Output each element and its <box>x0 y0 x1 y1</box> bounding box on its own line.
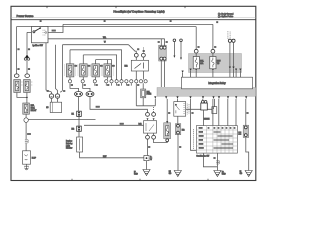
dashed above terminal2 <box>153 107 155 113</box>
combination switch table <box>196 126 237 154</box>
fuse M1 <box>66 64 74 77</box>
right connector block <box>243 125 248 137</box>
nested bus 2 <box>70 50 122 80</box>
chain wire b <box>78 116 80 126</box>
band bottom cones <box>154 96 247 99</box>
DRL resistor box <box>77 137 83 152</box>
zone tick bottom <box>72 179 208 181</box>
dashed link above coil 2 <box>142 48 144 54</box>
relay RL2 terminal 1 <box>146 113 150 117</box>
combination meter box <box>50 102 61 112</box>
wire bus P right drop <box>195 27 197 50</box>
wire table to ground G3 <box>216 153 218 170</box>
R2 internal switch <box>176 106 180 114</box>
headlight LH filament low <box>24 155 28 157</box>
integration relay bar <box>182 77 253 89</box>
wire left column B cont <box>26 60 28 74</box>
chain conn 1 <box>77 111 82 116</box>
bus full width y38.8 <box>48 38 165 40</box>
svg-text:R-W: R-W <box>103 156 107 158</box>
fuse DRL main <box>23 103 30 114</box>
bulb feed 2 <box>57 92 59 94</box>
resistor output long wire <box>80 152 144 158</box>
coil wires into box <box>136 57 143 60</box>
headlight relay coil circle 1 <box>134 53 138 57</box>
small comp above table <box>201 101 208 111</box>
zone tick top <box>47 6 185 8</box>
conn marks on ground wire <box>216 161 219 165</box>
RL1 internal switch <box>135 64 142 69</box>
svg-text:IH2: IH2 <box>182 130 185 132</box>
wires above 2pin <box>161 39 164 46</box>
right feed circle 2 <box>211 49 215 53</box>
nested bus 1 left stub <box>60 45 63 92</box>
diode dot <box>212 107 214 109</box>
RL1 internal coil mark <box>143 63 145 69</box>
bulb stems into box <box>52 98 58 102</box>
wire fuse outputs join <box>17 93 27 98</box>
svg-text:Combination SW: Combination SW <box>196 154 209 157</box>
wire W2 long run <box>28 120 143 126</box>
nested bus 4 drop <box>96 60 108 64</box>
connector oval B <box>25 74 30 78</box>
wire RL2 right to gray fuse <box>154 139 168 142</box>
svg-text:Ignition SW: Ignition SW <box>33 44 43 47</box>
wire bus Q right drop <box>212 24 214 49</box>
conn 1pin block <box>175 124 180 135</box>
svg-text:7.5: 7.5 <box>217 63 219 65</box>
upper gray junction block <box>189 54 242 73</box>
wire bulb column <box>25 122 27 139</box>
optional pair circles <box>228 39 231 42</box>
wire small comp to table <box>202 110 204 126</box>
table contact bars <box>214 132 234 148</box>
wire right conn to ground <box>246 138 249 171</box>
chain wire c <box>78 131 80 137</box>
page frame <box>11 6 256 180</box>
nested bus 2 drop <box>69 50 71 64</box>
table right note <box>239 132 241 133</box>
headlight relay box RL1 <box>131 60 148 71</box>
resistor inner <box>79 139 81 151</box>
optional wires w cones <box>174 42 181 58</box>
fuse M2 <box>80 64 88 77</box>
connector oval A <box>14 74 19 78</box>
svg-text:( ) : Splice Points: ( ) : Splice Points <box>218 15 233 18</box>
meter inner line <box>51 102 53 112</box>
svg-text:Headlight (w/ Daytime Running: Headlight (w/ Daytime Running Light) <box>113 9 164 13</box>
R2 label <box>187 104 189 115</box>
wire table join to ground <box>203 153 217 167</box>
wire band to right conn <box>245 99 247 125</box>
bus P y26.9 <box>17 26 197 28</box>
fuse HEAD RH <box>24 80 31 93</box>
nested bus 1 tap <box>56 45 58 92</box>
ignition switch pin marks <box>43 30 46 35</box>
cone ends <box>173 56 182 60</box>
diode box <box>212 107 217 114</box>
wire small fuse top <box>142 83 144 89</box>
wire cone155 down to lineA <box>154 99 156 106</box>
fuse side marks <box>21 82 32 85</box>
cone stub wires <box>183 69 241 77</box>
svg-text:RELAY: RELAY <box>31 109 38 112</box>
svg-text:IK2: IK2 <box>72 128 75 130</box>
connector diamond pair <box>24 118 28 123</box>
lower gray band <box>157 88 256 97</box>
fuse HEAD LH <box>14 80 21 93</box>
wire left column B <box>26 32 28 54</box>
RL2 cone pins <box>147 118 155 120</box>
wire circle2 to oval2 <box>83 83 90 91</box>
svg-text:Power Source: Power Source <box>17 14 34 18</box>
RL2 internal <box>146 123 154 131</box>
indicator bulb 1 <box>49 94 53 98</box>
bus Q y24.3 <box>63 23 213 25</box>
relay RL2 terminal 2 <box>152 113 156 117</box>
RL2 bottom pin wires <box>148 133 154 135</box>
chain conn 2 <box>77 126 82 131</box>
line A horizontal <box>136 105 155 107</box>
optional wire top circles <box>173 39 176 42</box>
fuse M4 <box>104 64 112 77</box>
optional pair wires <box>230 42 234 66</box>
junction box JB <box>144 156 149 161</box>
wire band to small comp <box>202 99 204 101</box>
R2 dot terminal <box>175 104 177 106</box>
svg-text:( ) : Body Ground: ( ) : Body Ground <box>218 13 233 15</box>
wire conn to ground <box>177 135 179 171</box>
J/B fuse row dashes <box>65 65 114 77</box>
right feed circle 1 <box>194 49 198 53</box>
connector circle row <box>68 80 147 83</box>
wire R2 down <box>177 116 179 123</box>
wire to headlight LH <box>25 143 27 150</box>
JB fuse 1 <box>193 57 199 69</box>
ground triangle G3 <box>214 171 221 177</box>
headlight relay coil circle 2 <box>142 53 146 57</box>
chain wire a <box>78 97 80 112</box>
bus diagonal to relay coil <box>129 45 137 54</box>
bulb feed 1 <box>51 92 53 94</box>
wire junction to ground <box>146 161 148 170</box>
R2 pin hatch <box>183 104 185 114</box>
connector oval 2pin 1 <box>75 92 83 97</box>
gray fuse top cone <box>166 121 168 123</box>
svg-text:IJ1: IJ1 <box>72 114 74 116</box>
wire circle1 to oval1 <box>70 83 79 91</box>
table rotated label <box>193 129 195 149</box>
RL1 pin wires down <box>136 71 143 79</box>
svg-text:Resistor: Resistor <box>66 147 73 150</box>
wire 190.5 to table row <box>191 99 197 150</box>
wire switch input <box>27 31 32 33</box>
gray fuse tall <box>164 123 171 139</box>
svg-text:W-L: W-L <box>103 37 106 39</box>
wire band to relay R2 <box>177 99 179 102</box>
wire switch output step <box>48 24 63 32</box>
ground triangle G4 <box>245 171 252 177</box>
relay R2 box <box>174 102 186 117</box>
fuse M3 <box>92 64 100 77</box>
relay RL2 box <box>144 121 157 133</box>
svg-text:Integration Relay: Integration Relay <box>208 82 226 85</box>
wire circles into block <box>196 53 213 56</box>
ignition switch lever <box>35 28 41 32</box>
wire W1 oval2 to relay RL2 <box>90 97 147 113</box>
connector oval 2pin 2 <box>86 92 94 97</box>
gray fuse bottom circle <box>166 139 169 142</box>
JB fuse 2 <box>210 57 216 69</box>
headlight LH filament high <box>24 159 28 162</box>
body ground cross LH <box>24 164 29 170</box>
wire R2 to diode <box>186 108 212 110</box>
wire small fuse bottom <box>142 98 144 106</box>
diode wire up <box>213 99 215 107</box>
nested bus 3 <box>83 55 116 80</box>
svg-text:DIODE: DIODE <box>204 119 210 121</box>
ignition switch box SW1 <box>32 27 49 43</box>
nested bus 3 drops <box>82 55 84 64</box>
junction box dot <box>146 157 148 159</box>
table row labels <box>199 127 235 148</box>
ignition switch inner pin <box>45 32 47 34</box>
nested bus 4 <box>96 60 112 80</box>
RL2 bottom terminals <box>146 135 150 139</box>
optional pair vertical text <box>228 31 230 39</box>
block bottom cones <box>190 67 242 72</box>
wires fuse bottoms to circle row <box>70 77 108 80</box>
cone at bar left <box>182 71 184 74</box>
connector pair marks LH <box>25 140 28 144</box>
node junction dot <box>26 97 27 98</box>
title band divider <box>11 17 256 19</box>
small fuse mid <box>141 89 146 98</box>
ignition switch lever knob <box>39 27 41 29</box>
indicator bulb 2 <box>55 94 59 98</box>
nested bus 1 <box>63 44 129 46</box>
wire RL2 left down <box>147 139 149 155</box>
title band bottom <box>11 19 256 21</box>
headlight LH box <box>23 151 31 164</box>
connector 2pin block <box>159 45 167 61</box>
ground triangle G1 <box>143 170 150 176</box>
wire to diamond <box>25 114 27 118</box>
ignition switch contact <box>33 31 35 33</box>
wire left column A <box>16 27 18 74</box>
misc tiny wire labels <box>18 21 248 159</box>
wire band to gray fuse <box>166 99 168 121</box>
wire relay RL1 pins down <box>135 83 137 106</box>
fusible link marker <box>24 55 30 60</box>
ground triangle G2 <box>174 171 181 177</box>
wires to table top <box>213 99 236 126</box>
wire switch bottom output <box>46 43 52 92</box>
row stubs below <box>95 83 132 86</box>
wires below 2pin <box>161 60 164 87</box>
